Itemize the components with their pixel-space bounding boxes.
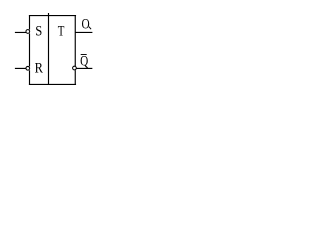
wire R input (15, 67, 26, 69)
flip-flop body: left edge upper segment (29, 15, 31, 29)
flip-flop body: top edge (29, 15, 76, 17)
inversion bubble Q-bar (73, 66, 77, 70)
overline of Q-bar (81, 54, 87, 56)
inversion bubble S (26, 30, 30, 34)
background (0, 0, 110, 99)
flip-flop body: right edge lower segment (74, 70, 76, 85)
label Q-bar (80, 52, 89, 69)
label S (35, 23, 42, 39)
svg-text:O: O (82, 15, 90, 32)
svg-text:T: T (58, 22, 65, 39)
tail of Q (89, 27, 91, 30)
svg-text:S: S (35, 23, 42, 39)
wire Q-bar output (77, 67, 93, 69)
section divider + T input stub (48, 13, 50, 84)
flip-flop body: bottom edge (29, 83, 76, 85)
flip-flop body: right edge upper segment (74, 15, 76, 66)
label Q (O bowl + tail stroke) (82, 15, 90, 32)
label R (35, 60, 44, 76)
inversion bubble R (26, 66, 30, 70)
svg-text:R: R (35, 60, 44, 76)
label T (58, 22, 65, 39)
wire S input (15, 31, 26, 33)
flip-flop body: left edge middle segment (29, 33, 31, 66)
wire Q output (75, 31, 92, 33)
flip-flop body: left edge lower segment (29, 70, 31, 85)
